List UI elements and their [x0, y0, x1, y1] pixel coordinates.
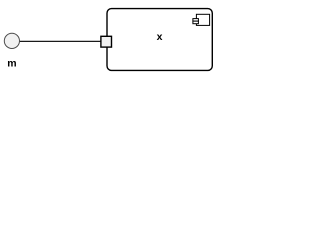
svg-text:m: m	[7, 58, 16, 70]
svg-text:x: x	[157, 31, 163, 43]
component x (rounded rectangle)	[107, 9, 212, 71]
component icon	[193, 14, 210, 25]
port square	[101, 36, 112, 47]
node m (lollipop circle)	[4, 33, 19, 48]
wire	[19, 40, 101, 42]
